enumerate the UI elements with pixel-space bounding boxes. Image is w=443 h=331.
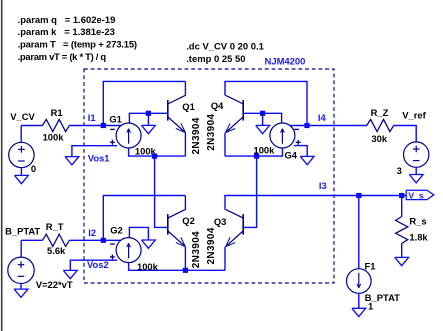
wire G4 bottom to emitter row [225, 149, 282, 157]
net label I4 [318, 112, 327, 123]
ground at Q4 base [256, 125, 270, 133]
node I2 junction [101, 238, 106, 243]
wire I4 to R_Z [307, 125, 367, 127]
spice directive .param k [18, 27, 115, 38]
G4 plus mark [296, 140, 301, 145]
junction on G1 emitter row [152, 154, 157, 159]
svg-text:G2: G2 [110, 225, 123, 236]
svg-text:Q1: Q1 [182, 101, 195, 112]
svg-text:I3: I3 [319, 180, 327, 191]
resistor R_Z [367, 119, 394, 131]
wire B_PTAT source top stub [20, 240, 22, 257]
wire Q3 base feed from upper pair [243, 156, 256, 227]
wire R_s riser [401, 196, 403, 217]
svg-text:2N3904: 2N3904 [191, 117, 202, 154]
G2 plus mark [110, 254, 115, 259]
wire B_PTAT to R_T [21, 239, 42, 241]
net label I2 [88, 227, 96, 238]
wire R_T to G2 minus input [69, 239, 121, 241]
svg-text:30k: 30k [371, 133, 387, 144]
svg-text:Q4: Q4 [211, 100, 224, 111]
ground below F1 [352, 308, 366, 316]
value 1.8k of R_s [409, 231, 428, 242]
value V=22*vT of B_PTAT [36, 279, 73, 290]
ground Vos2 [63, 270, 77, 278]
label Q4 [211, 100, 224, 111]
schematic window left border [1, 0, 3, 331]
junction at Q4 base [260, 111, 265, 116]
wire I3 down to F1 [358, 196, 360, 270]
spice directive .dc sweep [186, 42, 264, 53]
wire G4 output riser [263, 113, 282, 123]
net label Vos1 [88, 153, 110, 164]
label R_Z [371, 107, 389, 118]
transistor Q1 [168, 95, 186, 132]
label Q3 [214, 216, 227, 227]
svg-text:Q3: Q3 [214, 216, 227, 227]
dashed box NJM4200 boundary [84, 69, 334, 283]
svg-text:Vos1: Vos1 [88, 153, 110, 164]
ground below R_s [395, 257, 409, 265]
label V_ref [402, 109, 426, 120]
vccs G1 [116, 123, 141, 148]
net label I3 [319, 180, 327, 191]
wire Q2 base feed from upper pair [155, 156, 168, 227]
svg-text:R_T: R_T [46, 221, 64, 232]
svg-text:I2: I2 [88, 227, 96, 238]
wire V_ref bottom stub [415, 168, 417, 175]
svg-text:R_s: R_s [409, 215, 426, 226]
wire stub to ground at Q4 base [262, 113, 264, 125]
G4 minus mark [294, 128, 299, 130]
vccs G2 [116, 238, 141, 263]
value 100k of G4 [254, 144, 276, 155]
wire V_CV bottom stub [20, 168, 22, 175]
ground at G2 output [142, 240, 156, 248]
svg-text:Vos2: Vos2 [87, 259, 109, 270]
wire Q3 emitter lead [224, 247, 226, 270]
wire Q4 emitter lead [224, 133, 226, 157]
wire G2 plus input to Vos2 ground [70, 260, 117, 270]
wire collector rail to Q1 [103, 80, 186, 82]
wire I2 up to Q2 collector rail [102, 196, 104, 241]
wire G1 output riser [129, 113, 148, 123]
ground at Q1 base [142, 125, 156, 133]
label V_CV [10, 111, 35, 122]
svg-text:.param T = (temp + 273.15): .param T = (temp + 273.15) [18, 40, 137, 51]
junction at R_s [399, 193, 404, 198]
wire collector rail to Q2 [103, 195, 186, 197]
junction on Q2 emitter row [183, 268, 188, 273]
ground at G4 plus input [300, 156, 314, 164]
vccs G4 [270, 123, 295, 148]
svg-text:V_ref: V_ref [402, 109, 426, 120]
wire R_Z to V_ref source [394, 126, 417, 143]
value 100k of G1 [135, 145, 157, 156]
voltage source B_PTAT [8, 257, 34, 283]
comment label NJM4200 [265, 56, 306, 67]
spice directive .param T [18, 40, 137, 51]
spice directive .param q [18, 15, 116, 26]
label G1 [109, 113, 122, 124]
svg-text:2N3904: 2N3904 [206, 227, 217, 264]
resistor R_T [42, 234, 69, 246]
svg-text:V_CV: V_CV [10, 111, 35, 122]
wire I3 rail [224, 195, 406, 197]
label R_s [409, 215, 426, 226]
wire Q4 collector lead [224, 81, 226, 95]
svg-text:NJM4200: NJM4200 [265, 56, 306, 67]
svg-text:G1: G1 [109, 113, 122, 124]
output port flag V_s [406, 190, 434, 200]
label F1 [365, 260, 376, 271]
ground below B_PTAT [14, 289, 28, 297]
wire collector rail Q4 to I4 [224, 81, 307, 126]
value 0 of V_CV [31, 163, 36, 174]
wire Q2 collector lead [184, 196, 186, 210]
ground Vos1 [65, 157, 79, 165]
svg-text:2N3904: 2N3904 [206, 113, 217, 150]
value 2N3904 of Q2 [191, 231, 202, 268]
value 2N3904 of Q1 [191, 117, 202, 154]
svg-text:V_s: V_s [408, 190, 424, 200]
svg-text:I4: I4 [318, 112, 327, 123]
junction on G4 emitter row [254, 154, 259, 159]
svg-text:R1: R1 [51, 107, 63, 118]
wire G1 bottom to emitter row [129, 149, 186, 157]
wire stub to ground at Q1 base [147, 113, 149, 125]
svg-text:.param vT = (k * T) / q: .param vT = (k * T) / q [18, 52, 107, 63]
junction at F1 [356, 193, 361, 198]
ground below V_ref [409, 175, 423, 183]
node I4 junction [304, 123, 309, 128]
G1 plus mark [110, 140, 115, 145]
wire F1 bottom stub [358, 293, 360, 308]
wire Q1 collector lead [184, 81, 186, 95]
cccs F1 [347, 269, 372, 294]
wire Q1 emitter lead [184, 133, 186, 157]
resistor R_s [396, 217, 408, 244]
resistor R1 [42, 119, 69, 131]
wire I1 up to Q1 collector rail [102, 81, 104, 126]
wire Q2 emitter lead [184, 247, 186, 270]
svg-text:0: 0 [31, 163, 36, 174]
transistor Q3 [226, 209, 244, 246]
spice directive .temp [186, 54, 245, 65]
net label Vos2 [87, 259, 109, 270]
G2 minus mark [110, 243, 115, 245]
wire Q1 base [148, 112, 167, 114]
svg-text:.dc V_CV 0 20 0.1: .dc V_CV 0 20 0.1 [186, 42, 264, 53]
value B_PTAT of F1 [365, 292, 400, 303]
junction at Q1 base [146, 111, 151, 116]
svg-text:G4: G4 [285, 150, 298, 161]
label G4 [285, 150, 298, 161]
wire G1 plus input to Vos1 ground [72, 146, 117, 157]
value 2N3904 of Q4 [206, 113, 217, 150]
wire R_s to ground [401, 243, 403, 257]
transistor Q4 [226, 95, 244, 132]
wire V_CV source top stub [20, 126, 22, 143]
svg-text:1.8k: 1.8k [409, 231, 428, 242]
label R1 [51, 107, 63, 118]
wire Q4 base [243, 112, 262, 114]
svg-text:.param q = 1.602e-19: .param q = 1.602e-19 [18, 15, 116, 26]
label B_PTAT source [5, 226, 40, 237]
voltage source V_CV [9, 142, 34, 167]
svg-text:100k: 100k [137, 261, 159, 272]
G1 minus mark [110, 128, 115, 130]
svg-text:Q2: Q2 [182, 215, 195, 226]
voltage source V_ref [404, 142, 429, 167]
wire Q3 collector lead [224, 196, 226, 210]
label Q2 [182, 215, 195, 226]
ground below V_CV [15, 175, 29, 183]
wire G2 output riser [129, 227, 148, 240]
value 2N3904 of Q3 [206, 227, 217, 264]
value 100k of G2 [137, 261, 159, 272]
svg-text:F1: F1 [365, 260, 376, 271]
wire G4 plus input to ground [294, 146, 307, 157]
wire B_PTAT bottom stub [20, 284, 22, 290]
label Q1 [182, 101, 195, 112]
svg-text:R_Z: R_Z [371, 107, 389, 118]
label R_T [46, 221, 64, 232]
svg-text:3: 3 [397, 165, 402, 176]
svg-text:100k: 100k [43, 131, 65, 142]
svg-text:.temp 0 25 50: .temp 0 25 50 [186, 54, 245, 65]
svg-text:I1: I1 [88, 112, 96, 123]
value 100k of R1 [43, 131, 65, 142]
svg-text:2N3904: 2N3904 [191, 231, 202, 268]
svg-text:V=22*vT: V=22*vT [36, 279, 73, 290]
spice directive .param vT [18, 52, 107, 63]
wire R1 to G1 minus input [69, 125, 121, 127]
value 5.6k of R_T [47, 245, 66, 256]
value 30k of R_Z [371, 133, 387, 144]
label G2 [110, 225, 123, 236]
wire G2 bottom to emitter row [129, 263, 225, 270]
svg-text:1: 1 [368, 300, 373, 311]
transistor Q2 [168, 209, 186, 246]
wire G4 minus input to I4 [291, 125, 308, 127]
svg-text:5.6k: 5.6k [47, 245, 66, 256]
value 1 of F1 [368, 300, 373, 311]
net label I1 [88, 112, 96, 123]
node I1 junction [101, 123, 106, 128]
svg-text:.param k = 1.381e-23: .param k = 1.381e-23 [18, 27, 115, 38]
svg-text:B_PTAT: B_PTAT [5, 226, 40, 237]
wire V_CV to R1 [21, 125, 42, 127]
value 3 of V_ref [397, 165, 402, 176]
